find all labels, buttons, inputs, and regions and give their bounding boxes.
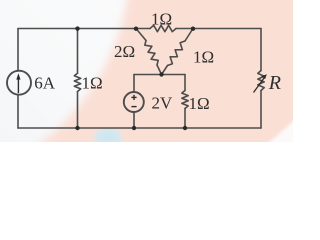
svg-text:1Ω: 1Ω	[151, 9, 172, 28]
svg-text:R: R	[268, 72, 281, 94]
svg-text:2V: 2V	[152, 94, 174, 113]
svg-text:6A: 6A	[34, 74, 56, 93]
svg-text:2Ω: 2Ω	[114, 42, 135, 61]
svg-text:1Ω: 1Ω	[189, 94, 210, 113]
svg-text:1Ω: 1Ω	[82, 74, 103, 93]
svg-text:1Ω: 1Ω	[193, 48, 214, 67]
